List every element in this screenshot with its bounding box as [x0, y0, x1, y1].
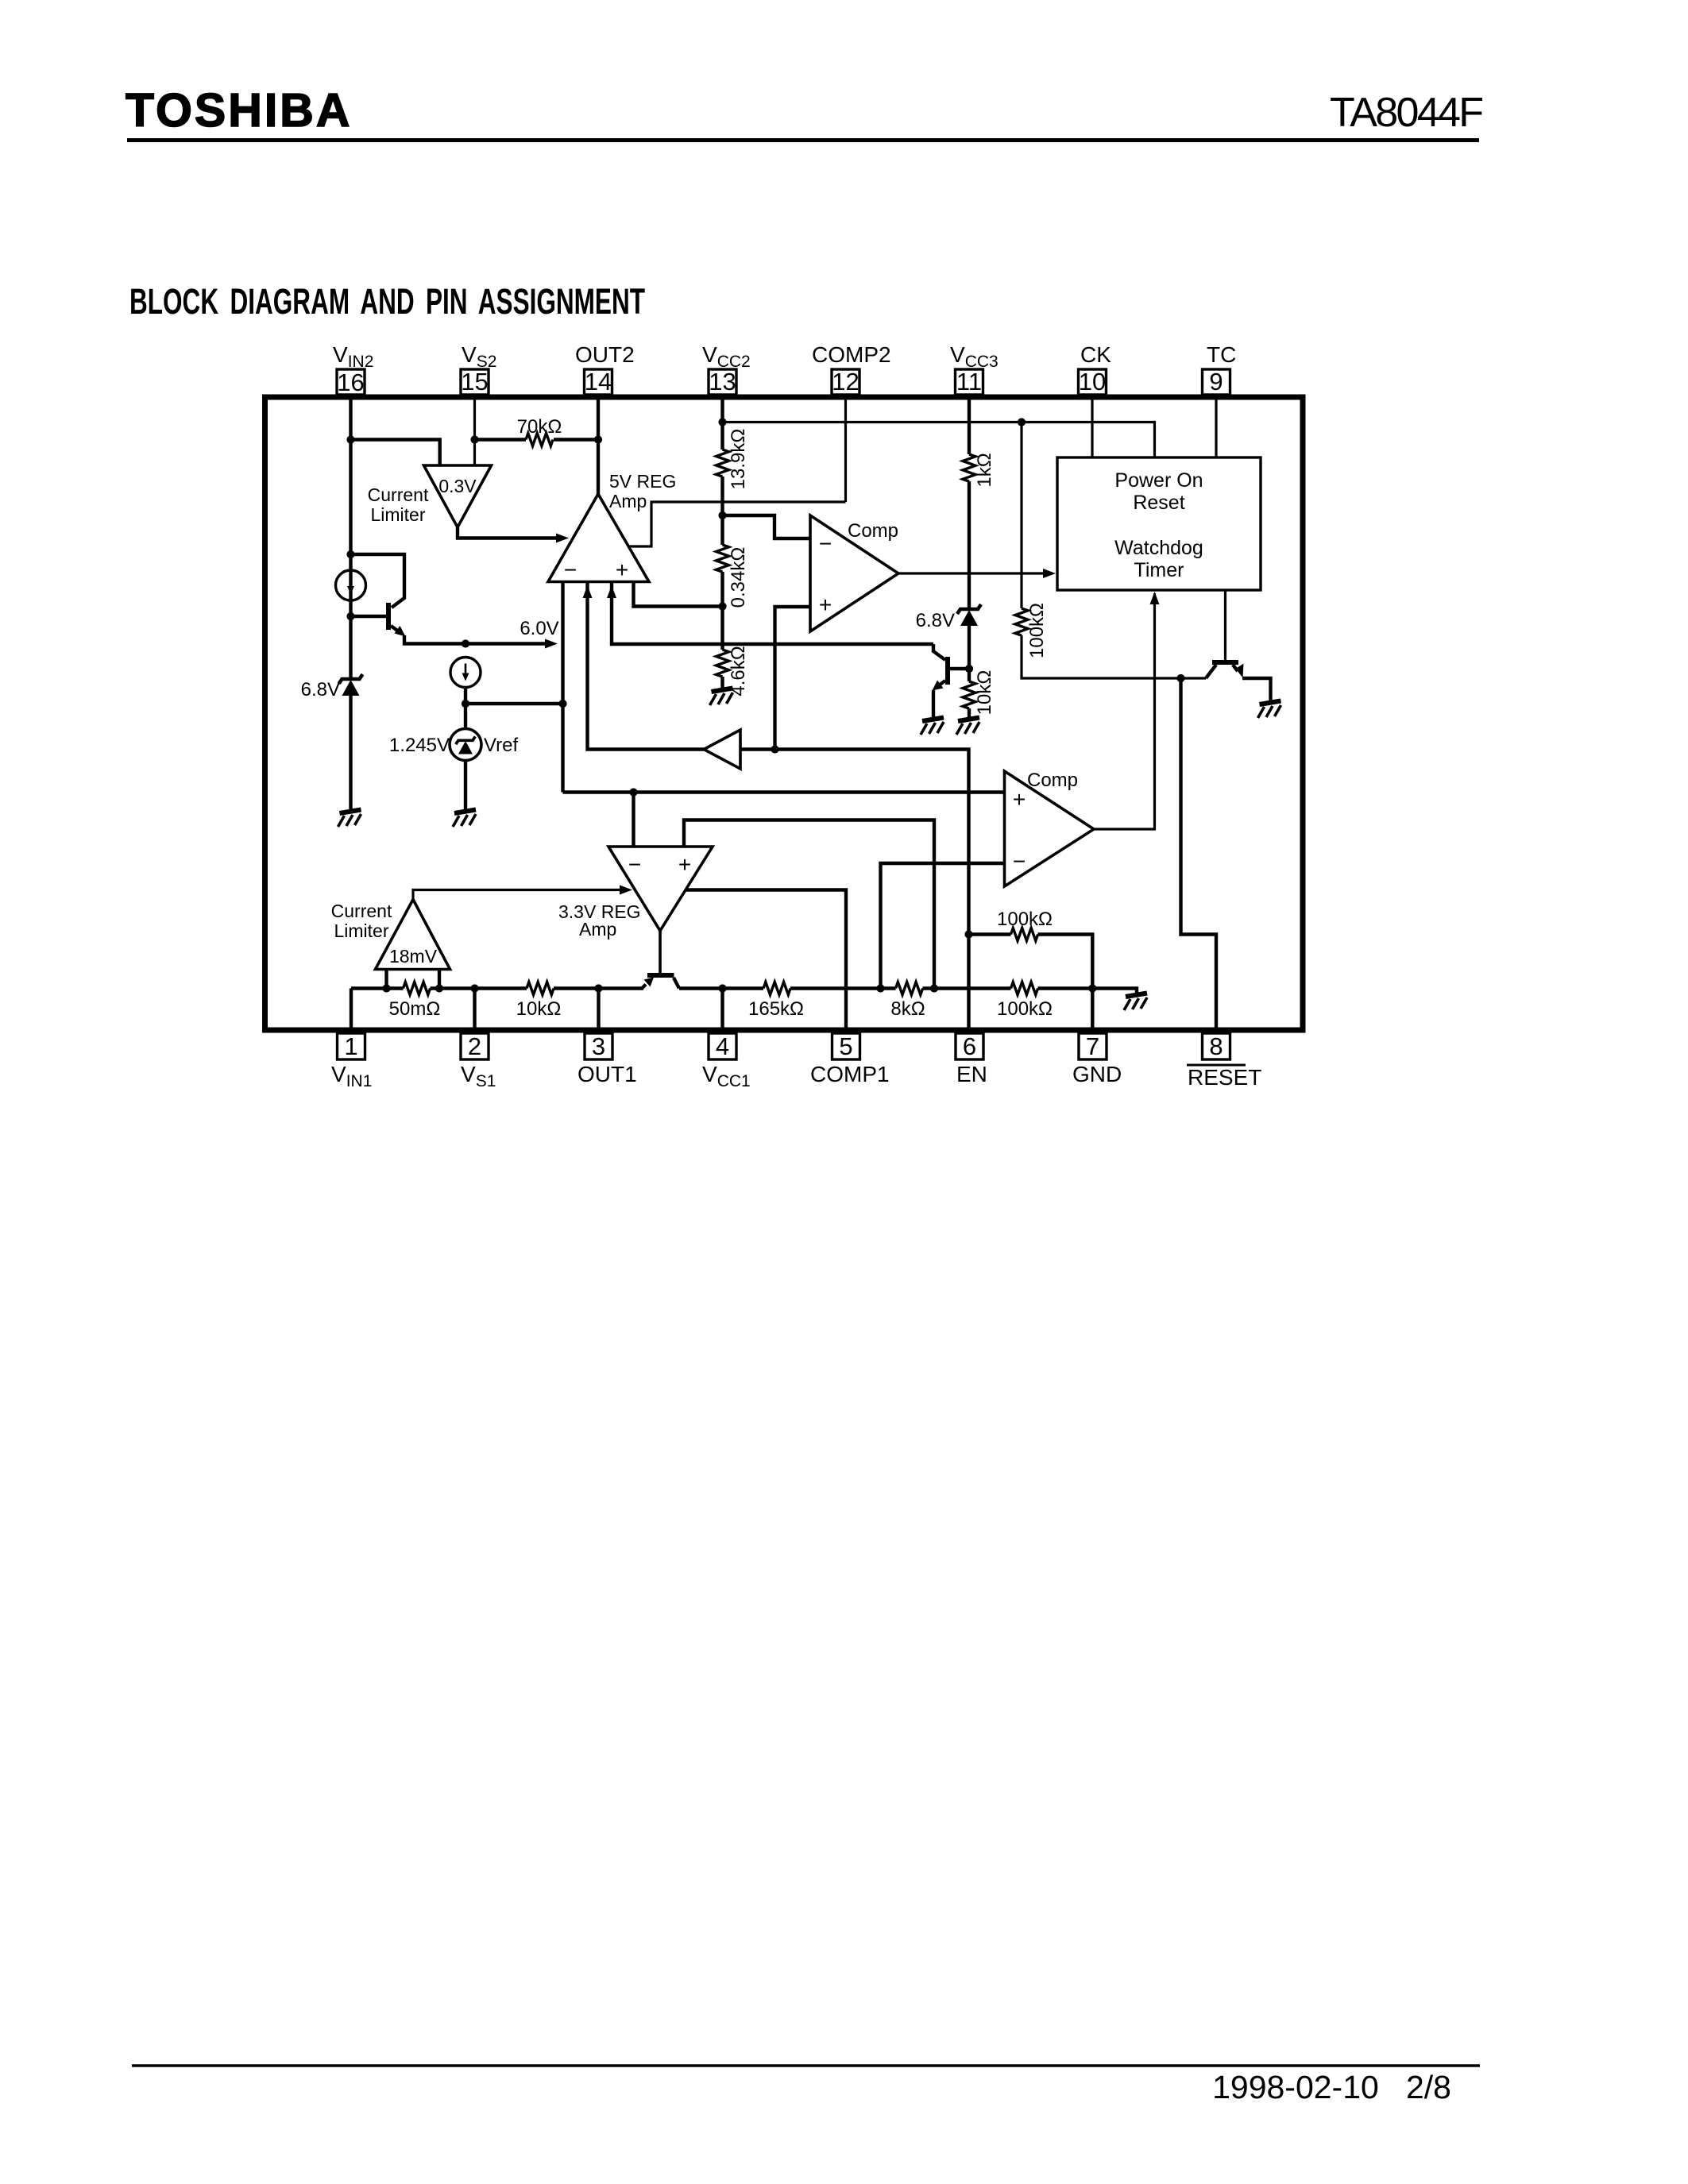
pin 7 box — [1079, 1033, 1107, 1059]
svg-text:Power On: Power On — [1114, 469, 1203, 492]
svg-text:EN: EN — [956, 1062, 987, 1086]
pin 5 box — [832, 1033, 860, 1059]
resistor 100k ohm (VCC2 to base wire) — [1020, 423, 1022, 609]
svg-text:BLOCK DIAGRAM AND PIN ASSIGNME: BLOCK DIAGRAM AND PIN ASSIGNMENT — [129, 281, 645, 322]
op-amp U5 3.3V REG Amp — [608, 847, 713, 931]
resistor 100k ohm (row) — [1011, 982, 1038, 995]
svg-text:−: − — [628, 852, 641, 877]
pin 11 box — [956, 369, 983, 395]
wire 5V amp output to COMP2 — [629, 502, 846, 546]
wire VIN2 to 0.3V limiter top — [351, 440, 440, 466]
resistor 10k ohm (row) — [527, 982, 554, 995]
node row/OUT1 — [594, 984, 602, 992]
wire VCC1 pin4 leg — [720, 989, 724, 1034]
wire 18mV limiter output to 3.3V amp — [413, 890, 626, 900]
pin 6 box — [956, 1033, 983, 1059]
svg-text:+: + — [616, 558, 628, 582]
buffer U3 (points left) — [704, 730, 740, 769]
wire Q1 base — [351, 615, 387, 618]
svg-text:6.0V: 6.0V — [520, 618, 558, 639]
header rule — [127, 138, 1479, 142]
wire lower Comp+ input — [563, 790, 1005, 793]
svg-text:1: 1 — [344, 1032, 357, 1060]
node 13.9k/0.34k divider — [718, 511, 726, 519]
transistor Q4 emitter — [642, 985, 646, 989]
svg-text:1998-02-10 2/8: 1998-02-10 2/8 — [1212, 2069, 1451, 2105]
svg-text:10kΩ: 10kΩ — [516, 998, 562, 1020]
node leg A / Vref — [558, 700, 566, 708]
wire VCC2 pin13 vertical top — [720, 399, 724, 450]
pin 8 box — [1203, 1033, 1230, 1059]
svg-text:Watchdog: Watchdog — [1114, 537, 1203, 559]
transistor Q3 collector from box — [1224, 590, 1226, 660]
op-amp U1 5V REG Amp — [548, 494, 649, 582]
svg-text:0.34kΩ: 0.34kΩ — [728, 547, 749, 608]
wire 3.3V amp noninv leg — [684, 820, 934, 989]
transistor Q3 base lead — [1206, 665, 1216, 678]
wire 5V amp inv input leg — [561, 582, 564, 793]
svg-text:100kΩ: 100kΩ — [997, 909, 1053, 930]
pin 4 box — [709, 1033, 736, 1059]
wire lower Comp inv input — [881, 863, 1005, 989]
svg-text:Limiter: Limiter — [370, 504, 425, 525]
wire Q1 emitter to 6.0V node — [404, 635, 465, 644]
svg-text:4: 4 — [716, 1032, 729, 1060]
svg-text:6.8V: 6.8V — [916, 610, 955, 631]
node row/limiter right leg — [435, 984, 443, 992]
svg-text:OUT2: OUT2 — [575, 342, 635, 367]
svg-text:−: − — [819, 531, 832, 556]
svg-text:1kΩ: 1kΩ — [974, 453, 995, 487]
wire 5V amp sense leg D — [634, 582, 723, 607]
node OUT2 / 70k — [594, 435, 602, 443]
svg-text:13.9kΩ: 13.9kΩ — [728, 429, 749, 490]
current source I1 — [336, 570, 366, 600]
svg-text:Timer: Timer — [1134, 559, 1184, 581]
svg-text:GND: GND — [1072, 1062, 1122, 1086]
svg-text:Current: Current — [331, 901, 392, 921]
wire Comp+ to buffer node — [775, 607, 811, 750]
wire Vref top to 5V amp inv input — [465, 702, 563, 705]
op-amp 0.3V current limiter — [424, 465, 492, 527]
svg-text:COMP2: COMP2 — [812, 342, 891, 367]
node 6.0V / current source I2 — [462, 639, 469, 647]
ground at row end — [1124, 994, 1147, 1011]
svg-text:COMP1: COMP1 — [810, 1062, 890, 1086]
svg-text:70kΩ: 70kΩ — [517, 416, 562, 438]
transistor Q4 base bar — [647, 973, 674, 978]
svg-text:+: + — [678, 852, 691, 877]
node row/VS1 — [470, 984, 478, 992]
svg-text:8kΩ: 8kΩ — [890, 998, 925, 1020]
wire VIN2 pin16 vertical — [349, 399, 352, 677]
wire 3.3V amp inv leg — [632, 793, 635, 847]
wire 5V amp input leg B to buffer — [588, 582, 705, 750]
svg-text:9: 9 — [1209, 368, 1223, 396]
ground below Vref — [453, 810, 476, 828]
18mV limiter legs — [387, 970, 440, 989]
svg-text:RESET: RESET — [1188, 1065, 1261, 1090]
node RESET branch — [1176, 674, 1184, 682]
wire OUT1 pin3 leg — [597, 989, 600, 1034]
resistor 70k ohm body — [526, 434, 553, 446]
svg-text:Comp: Comp — [848, 520, 898, 542]
svg-text:0.3V: 0.3V — [438, 476, 477, 496]
transistor Q3 base bar — [1212, 660, 1238, 665]
wire Q2 base to node — [950, 667, 969, 670]
wire VCC2 node to POR box — [723, 423, 1155, 458]
resistor 8k ohm — [896, 982, 923, 995]
svg-text:15: 15 — [461, 368, 488, 396]
node row/VCC1 — [718, 984, 726, 992]
wire VCC3 pin11 vertical — [968, 399, 971, 454]
svg-text:13: 13 — [709, 368, 736, 396]
zener D1 6.8V on VIN2 — [339, 674, 363, 696]
svg-text:TC: TC — [1207, 342, 1236, 367]
node VIN2 / Q1 collector — [346, 550, 354, 558]
node row/limiter left leg — [382, 984, 390, 992]
svg-text:Comp: Comp — [1027, 770, 1078, 791]
reference diode Vref 1.245V — [450, 729, 481, 761]
node EN / 100k feedback — [964, 930, 972, 938]
svg-text:50mΩ: 50mΩ — [389, 998, 441, 1020]
wire OUT2 pin14 vertical — [597, 399, 600, 494]
node VCC3 / Q2 base / 10k — [965, 665, 973, 673]
svg-text:Reset: Reset — [1133, 492, 1184, 514]
wire VS1 pin2 leg — [473, 989, 476, 1034]
current source I2 — [450, 658, 481, 688]
footer rule — [132, 2064, 1480, 2067]
wire lower Comp output to POR box — [1094, 593, 1155, 829]
svg-text:−: − — [1013, 849, 1026, 874]
svg-text:7: 7 — [1086, 1032, 1099, 1060]
comparator U2 Comp (upper) — [810, 515, 898, 631]
svg-text:Current: Current — [368, 484, 429, 505]
svg-text:2: 2 — [468, 1032, 481, 1060]
svg-text:Limiter: Limiter — [334, 920, 388, 941]
svg-text:CK: CK — [1080, 342, 1111, 367]
resistor 70k ohm wire — [475, 438, 599, 441]
resistor 1k ohm — [963, 454, 975, 481]
resistor 0.34k ohm — [720, 515, 724, 545]
transistor Q2 collector — [933, 644, 945, 660]
svg-text:12: 12 — [832, 368, 859, 396]
wire RESET pin8 path — [1181, 678, 1217, 1033]
wire VIN1 pin1 leg — [350, 989, 353, 1034]
pin 14 box — [585, 369, 612, 395]
svg-text:+: + — [819, 592, 832, 617]
svg-text:TOSHIBA: TOSHIBA — [126, 84, 352, 137]
svg-text:165kΩ: 165kΩ — [748, 998, 804, 1020]
wire CK pin10 to box — [1091, 399, 1093, 457]
wire 6.0V arrow — [465, 642, 547, 645]
svg-text:5: 5 — [839, 1032, 852, 1060]
node Comp+ / 3.3V amp inv — [629, 788, 637, 796]
ground below Q2 emitter — [921, 718, 944, 735]
svg-text:Amp: Amp — [579, 919, 616, 940]
transistor Q4 collector — [674, 978, 679, 989]
resistor 13.9k ohm — [717, 450, 729, 477]
svg-text:8: 8 — [1209, 1032, 1223, 1060]
transistor Q2 emitter — [937, 681, 945, 687]
arrow into 5V amp — [556, 534, 569, 543]
svg-text:100kΩ: 100kΩ — [997, 998, 1053, 1020]
node VIN2 / Q1 base — [346, 612, 354, 620]
pin 9 box — [1203, 369, 1230, 395]
wire TC pin9 to box — [1215, 399, 1217, 457]
resistor 100k ohm (feedback to GND pin) — [969, 935, 1093, 1034]
svg-text:TA8044F: TA8044F — [1330, 90, 1484, 136]
svg-text:11: 11 — [956, 368, 982, 396]
ground below Q3 emitter — [1258, 701, 1281, 719]
ground below 10k — [956, 718, 979, 735]
node VCC2 top — [718, 418, 726, 426]
svg-text:5V REG: 5V REG — [609, 471, 676, 492]
wire 3.3V amp feedback to COMP1 — [686, 890, 847, 1034]
op-amp 18mV current limiter — [376, 900, 450, 970]
wire Comp output to POR box — [898, 572, 1050, 574]
resistor 4.6k ohm — [720, 607, 724, 650]
svg-text:3: 3 — [592, 1032, 605, 1060]
pin 16 box — [337, 369, 365, 395]
wire COMP2 pin12 vertical — [844, 399, 847, 502]
node Vref top — [462, 700, 469, 708]
svg-text:Vref: Vref — [484, 735, 518, 756]
wire 3.3V amp output — [659, 931, 662, 973]
pin 10 box — [1079, 369, 1107, 395]
node row/8k left — [876, 984, 884, 992]
svg-text:Amp: Amp — [609, 491, 647, 511]
node buffer/Comp+ — [771, 745, 778, 753]
wire VS2 pin15 vertical — [473, 399, 476, 465]
wire 0.3V limiter output to 5V amp — [458, 527, 562, 538]
svg-text:−: − — [564, 558, 577, 582]
pin 12 box — [832, 369, 859, 395]
svg-text:10: 10 — [1079, 368, 1106, 396]
node row/GND — [1088, 984, 1096, 992]
svg-text:16: 16 — [337, 369, 364, 396]
transistor Q1 emitter — [391, 626, 402, 634]
wire buffer input from EN line — [740, 750, 969, 1034]
pin 2 box — [461, 1033, 489, 1059]
node on VIN2 at limiter tap — [346, 435, 354, 443]
node 100k top — [1018, 418, 1026, 426]
svg-text:14: 14 — [585, 368, 612, 396]
svg-text:10kΩ: 10kΩ — [974, 670, 995, 716]
wire Q1 collector — [351, 554, 405, 608]
svg-text:OUT1: OUT1 — [577, 1062, 637, 1086]
transistor Q2 base bar — [945, 657, 950, 685]
transistor Q1 base bar — [386, 603, 391, 630]
wire 5V amp input leg C to Q2 collector — [612, 582, 933, 645]
svg-text:100kΩ: 100kΩ — [1026, 603, 1048, 658]
ground below 4.6k — [710, 689, 733, 706]
svg-text:1.245V: 1.245V — [389, 735, 450, 756]
node 0.34k/4.6k — [718, 602, 726, 610]
node VS2 / 70k — [470, 435, 478, 443]
node row/8k right — [930, 984, 938, 992]
resistor 10k ohm (Q2) — [968, 669, 971, 681]
pin 1 box — [338, 1033, 365, 1059]
svg-text:6.8V: 6.8V — [301, 679, 340, 700]
pin 13 box — [709, 369, 736, 395]
Power On Reset / Watchdog Timer box — [1057, 457, 1261, 590]
svg-text:6: 6 — [963, 1032, 976, 1060]
wire divider node to Comp inv input — [723, 515, 811, 538]
pin 15 box — [461, 369, 489, 395]
svg-text:+: + — [1013, 787, 1026, 812]
ground below VIN2 zener — [338, 810, 361, 828]
IC body outline — [265, 397, 1304, 1030]
transistor Q3 emitter — [1233, 665, 1238, 671]
zener D2 6.8V on VCC3 — [957, 604, 981, 626]
svg-text:18mV: 18mV — [389, 946, 438, 967]
bottom row main wire — [351, 989, 1137, 995]
comparator U4 Comp (lower) — [1005, 771, 1095, 886]
resistor 50m ohm — [404, 982, 431, 995]
pin 3 box — [585, 1033, 612, 1059]
resistor 165k ohm — [763, 982, 790, 995]
